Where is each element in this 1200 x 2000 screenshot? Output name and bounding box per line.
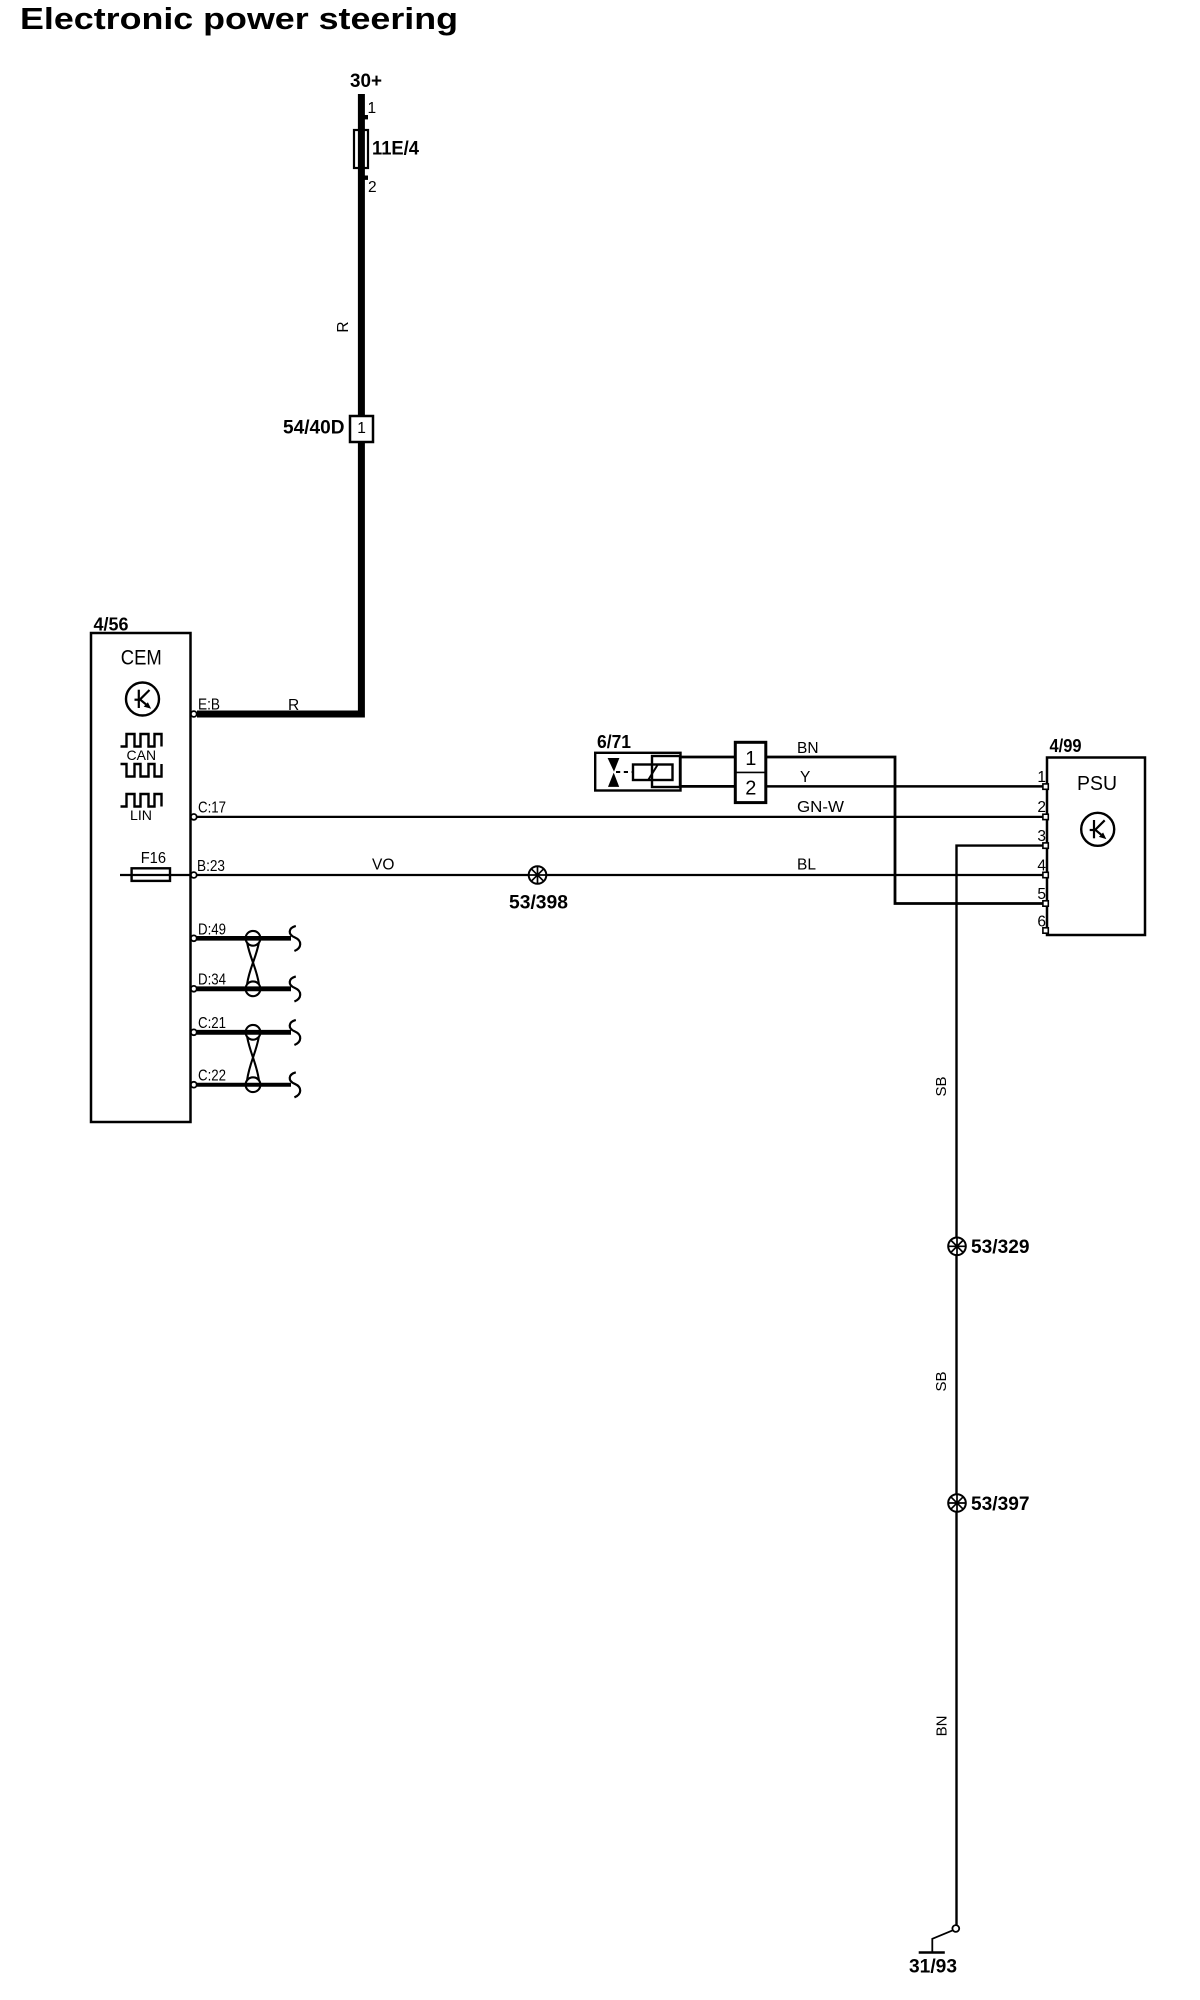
svg-text:BL: BL [797, 857, 816, 874]
svg-text:53/397: 53/397 [971, 1494, 1030, 1515]
svg-text:C:22: C:22 [198, 1068, 226, 1085]
svg-text:R: R [288, 697, 299, 714]
wire twisted pair stub C:22 [197, 1083, 291, 1087]
svg-text:31/93: 31/93 [909, 1957, 957, 1978]
svg-text:R: R [335, 321, 352, 332]
wire 6/71 pin1 to connector [681, 756, 737, 759]
svg-text:6/71: 6/71 [597, 732, 631, 752]
fuse F16 inside CEM [120, 874, 190, 876]
svg-text:B:23: B:23 [197, 858, 225, 875]
svg-text:BN: BN [797, 740, 819, 757]
svg-text:1: 1 [745, 748, 756, 770]
svg-text:2: 2 [368, 179, 377, 196]
twisted pair symbol C:21/C:22 [246, 1025, 261, 1092]
svg-text:LIN: LIN [130, 808, 152, 823]
svg-text:VO: VO [372, 857, 394, 874]
CAN bus symbol [121, 734, 162, 777]
svg-text:2: 2 [745, 778, 756, 800]
svg-text:SB: SB [933, 1076, 950, 1096]
K symbol U:CEM [126, 683, 159, 716]
svg-text:1: 1 [368, 100, 377, 117]
wire 6/71 pin2 to connector [681, 785, 737, 788]
svg-text:CAN: CAN [127, 748, 157, 763]
ground bar 31/93 [919, 1951, 945, 1954]
svg-text:GN-W: GN-W [797, 799, 844, 816]
svg-text:C:21: C:21 [198, 1015, 226, 1032]
wire BN from connector 1 to PSU pin 5 [766, 757, 1045, 904]
wire twisted pair stub C:21 [197, 1030, 291, 1035]
svg-text:D:49: D:49 [198, 922, 226, 939]
inner connector box of 6/71 [652, 756, 680, 787]
break symbol D:34 [290, 976, 300, 1001]
svg-text:5: 5 [1037, 886, 1046, 903]
ground terminal circle [952, 1925, 959, 1932]
break symbol C:22 [290, 1072, 300, 1097]
pin 2 nub of fuse 11E/4 [364, 176, 368, 180]
svg-text:SB: SB [933, 1371, 950, 1391]
svg-text:2: 2 [1037, 799, 1046, 816]
svg-text:11E/4: 11E/4 [372, 139, 419, 160]
svg-text:1: 1 [357, 420, 366, 437]
svg-text:D:34: D:34 [198, 972, 226, 989]
coil box with diagonal in 6/71 [633, 765, 673, 781]
svg-text:54/40D: 54/40D [283, 418, 345, 439]
wire VO/BL from CEM B:23 to PSU pin 4 [197, 874, 1045, 876]
LIN bus symbol [121, 794, 162, 807]
CEM pin circles [191, 711, 197, 1088]
svg-text:4/56: 4/56 [94, 615, 129, 635]
PSU pin squares [1043, 784, 1048, 933]
svg-text:30+: 30+ [350, 71, 382, 92]
svg-text:Y: Y [800, 769, 810, 786]
svg-text:53/398: 53/398 [509, 893, 568, 914]
svg-text:PSU: PSU [1077, 772, 1117, 795]
K symbol U:PSU [1081, 813, 1114, 846]
svg-text:E:B: E:B [198, 697, 220, 714]
fuse 11E/4 [354, 130, 368, 168]
wire R battery feed (vertical + horizontal to CEM E:B) [197, 94, 361, 714]
svg-text:4/99: 4/99 [1050, 736, 1082, 756]
break symbol D:49 [290, 926, 300, 951]
svg-text:BN: BN [934, 1716, 951, 1737]
svg-text:F16: F16 [141, 850, 166, 867]
break symbol C:21 [290, 1020, 300, 1045]
pin 1 nub of fuse 11E/4 [364, 115, 368, 119]
splice 53/329 [948, 1238, 966, 1256]
wire SB from PSU pin 3 down to ground [957, 846, 1046, 1925]
splice 53/398 [529, 866, 547, 884]
svg-text:3: 3 [1037, 828, 1046, 845]
svg-text:1: 1 [1037, 769, 1046, 786]
svg-text:6: 6 [1037, 914, 1046, 931]
wire twisted pair stub D:49 [197, 936, 291, 941]
twisted pair symbol D:49/D:34 [246, 931, 261, 996]
svg-text:C:17: C:17 [198, 800, 226, 817]
svg-text:53/329: 53/329 [971, 1237, 1030, 1258]
wire Y from connector 2 to PSU pin 1 [766, 785, 1045, 788]
svg-text:Electronic power steering: Electronic power steering [20, 1, 458, 36]
wire GN-W from CEM C:17 to PSU pin 2 [197, 816, 1045, 818]
inline connector block 1/2 [735, 742, 766, 802]
hourglass lamp symbol in 6/71 [608, 758, 620, 772]
svg-text:CEM: CEM [121, 647, 162, 670]
ground lead [932, 1930, 953, 1952]
splice 53/397 [948, 1494, 966, 1512]
dashed actuator link [616, 771, 633, 773]
svg-text:4: 4 [1037, 858, 1046, 875]
wire twisted pair stub D:34 [197, 986, 291, 991]
